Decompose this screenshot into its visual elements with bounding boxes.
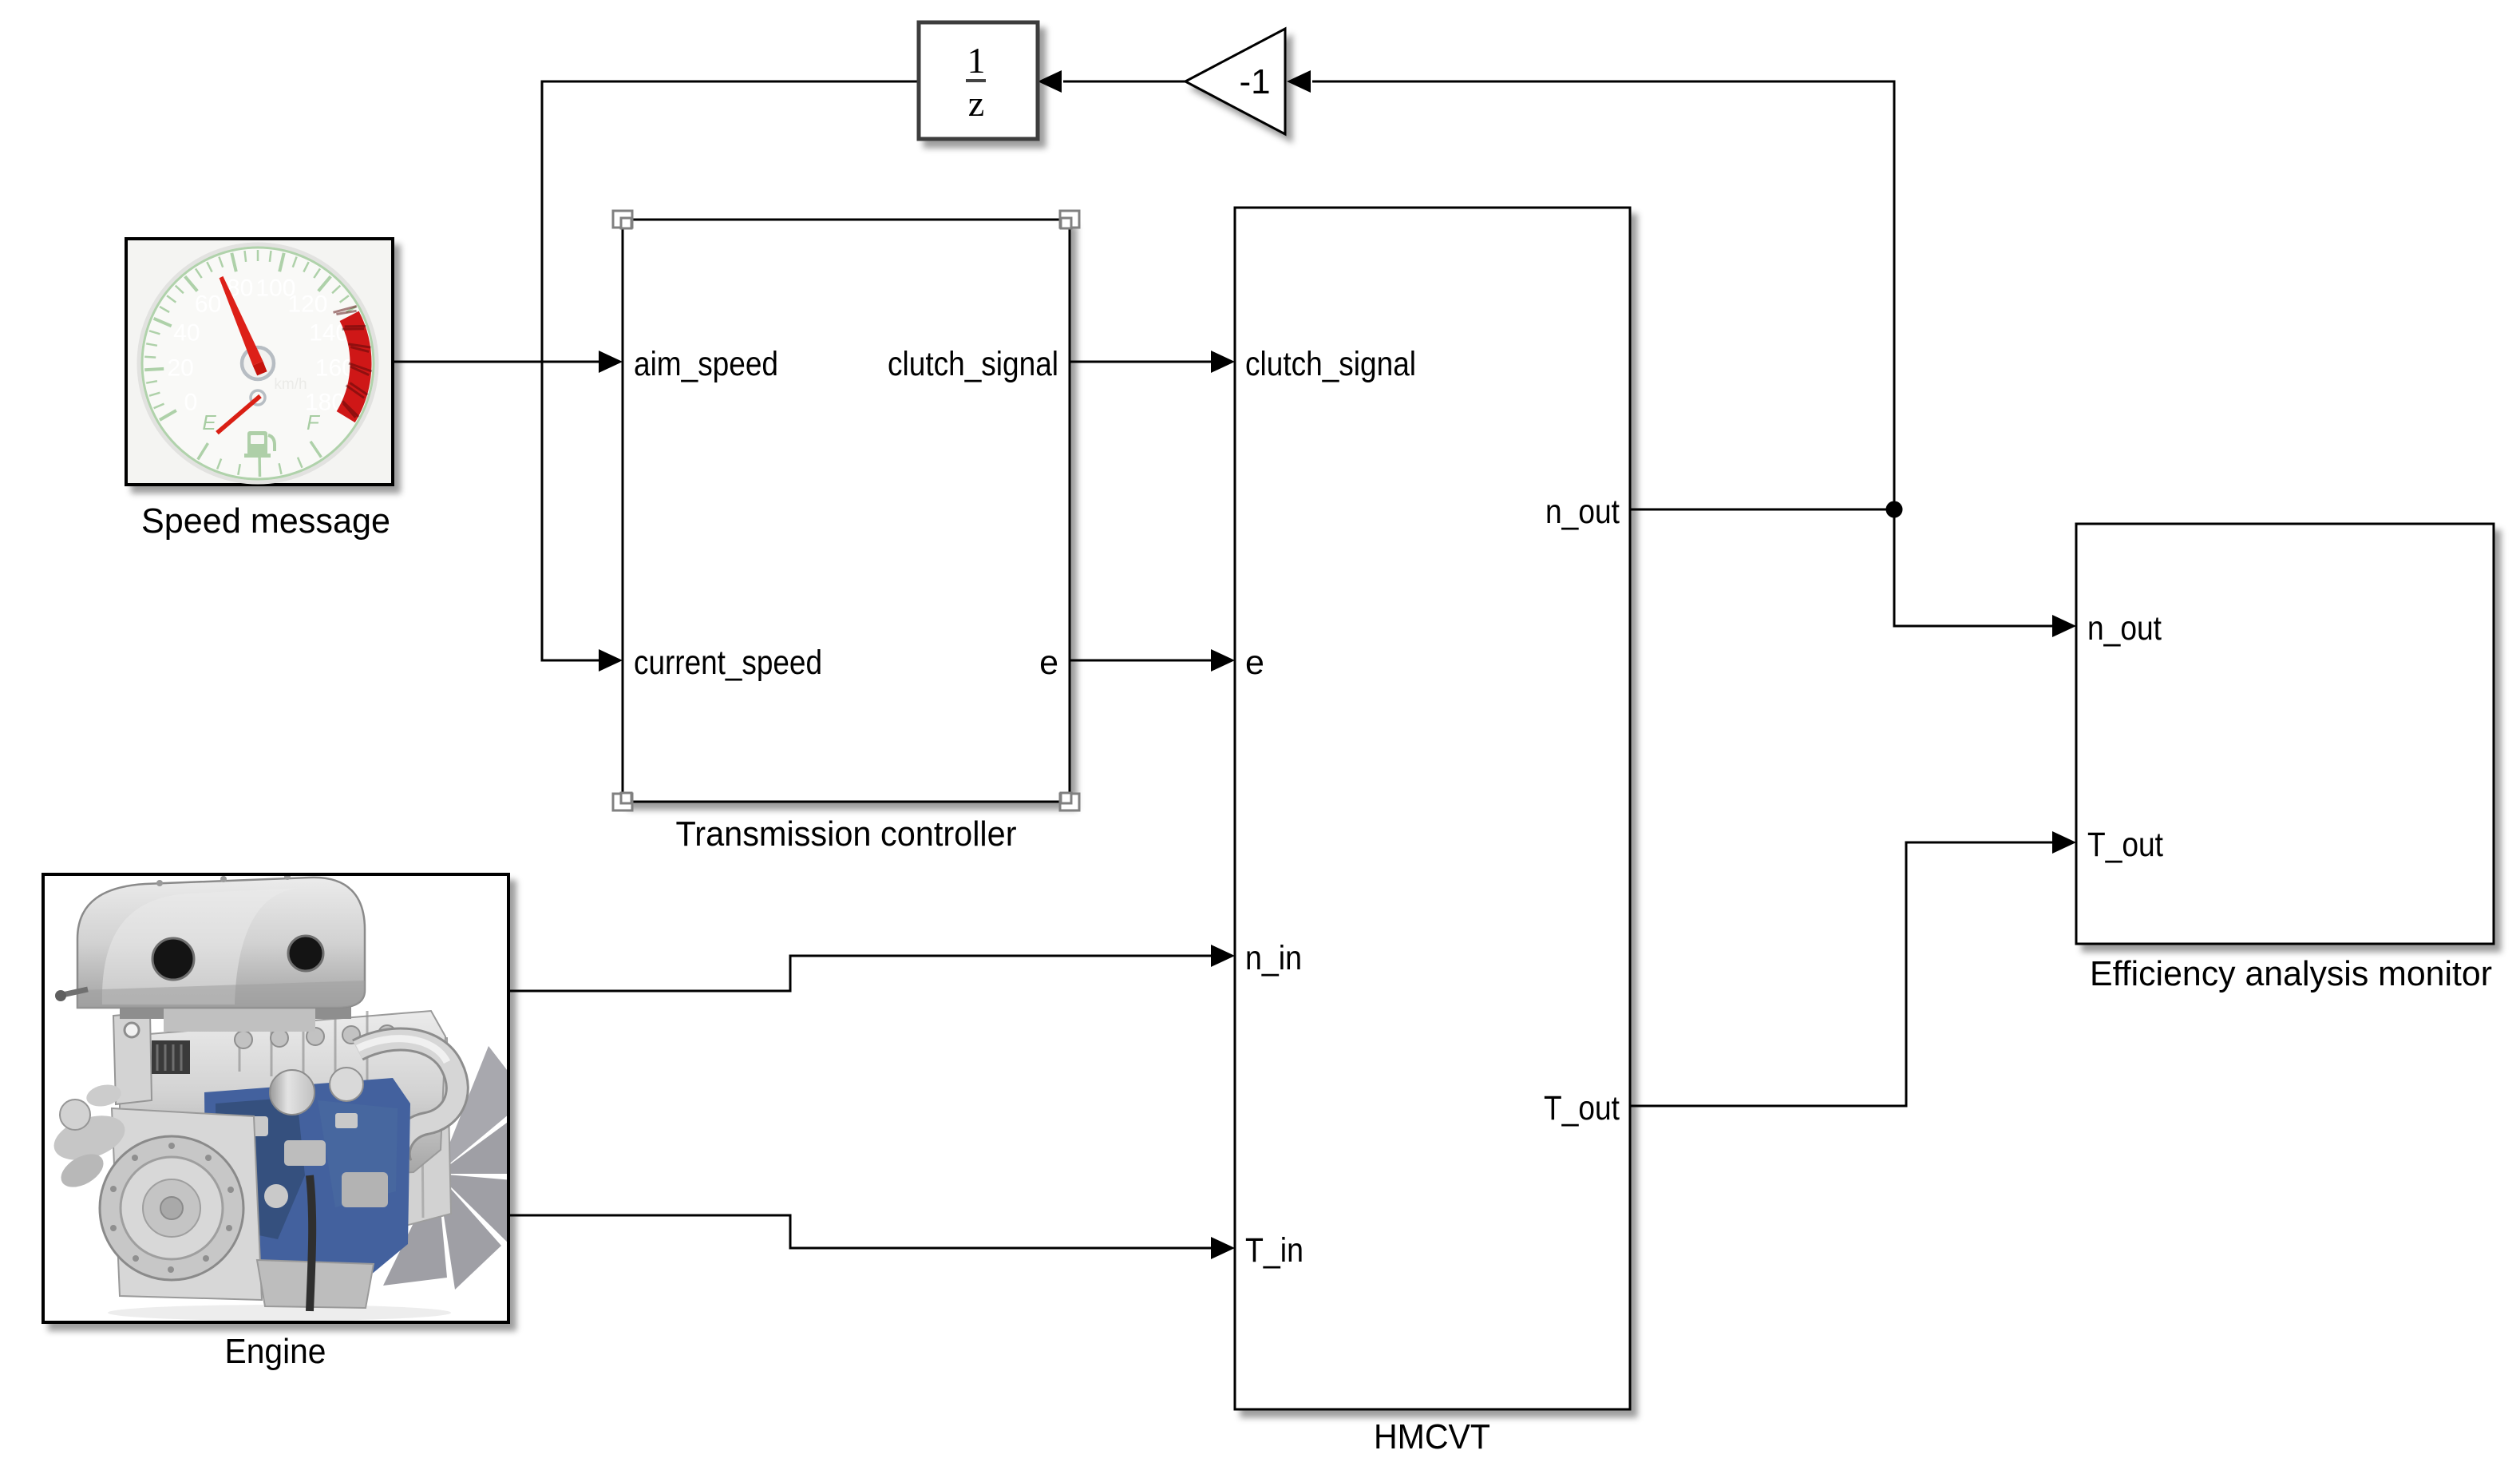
svg-text:Engine: Engine [225,1332,326,1371]
blue engine block [204,1078,410,1275]
speed message block [126,239,393,485]
svg-text:km/h: km/h [274,376,307,393]
arrowhead into EAM T_out [2052,831,2076,854]
corner badge top-right [1060,211,1079,228]
svg-text:60: 60 [195,291,221,318]
svg-text:40: 40 [173,320,200,347]
gauge red zone scribbles [334,307,372,418]
fuel needle [216,394,262,434]
corner badge bottom-left [613,793,632,810]
flywheel [100,1136,243,1280]
svg-text:n_out: n_out [2087,609,2162,648]
efficiency analysis monitor block [2076,524,2494,944]
svg-text:n_out: n_out [1545,493,1620,531]
valve cover ribs [239,1011,367,1086]
svg-text:HMCVT: HMCVT [1374,1417,1490,1456]
junction dot [1886,501,1903,518]
HMCVT block [1235,208,1630,1409]
svg-text:F: F [307,410,321,434]
wire: speed message output to aim_speed [393,361,600,363]
gauge dial numbers [168,275,355,416]
gauge red zone arc [346,316,361,417]
svg-text:e: e [1039,644,1058,682]
svg-text:0: 0 [184,390,198,416]
wire: HMCVT T_out to EAM T_out [1630,842,2054,1106]
turbo rounds [270,1070,315,1115]
fan blades [342,1046,533,1290]
fuel hub [251,390,265,405]
svg-text:T_in: T_in [1245,1231,1304,1270]
ground shadow [108,1305,451,1321]
wire: gain output to unit delay input [1063,81,1185,83]
canister top bolts [156,874,291,886]
svg-text:Speed message: Speed message [141,501,390,541]
wire: e TC to HMCVT [1070,660,1213,662]
unit delay block 1/z [919,22,1038,139]
arrowhead into aim_speed [599,351,623,373]
svg-text:clutch_signal: clutch_signal [1245,345,1416,383]
svg-text:aim_speed: aim_speed [634,345,778,383]
arrowhead into HMCVT clutch_signal [1211,351,1235,373]
arrowhead into current_speed [599,649,623,672]
oil pan [257,1260,374,1308]
canister intake hole right [288,936,323,971]
flywheel housing [112,1108,262,1300]
svg-text:20: 20 [168,355,194,382]
silver detail on blue [220,1113,388,1225]
corner badge top-left [613,211,632,228]
engine mid block silver [120,1011,445,1180]
air filter canister [77,878,365,1008]
wire: unit delay output feedback to current_speed [542,81,919,660]
svg-text:Transmission controller: Transmission controller [676,814,1017,854]
canister handle [62,989,88,995]
gauge outer ring [139,244,377,482]
gauge green rim [142,248,374,479]
gauge art [139,244,377,482]
svg-text:T_out: T_out [1544,1089,1620,1127]
corner badge bottom-right [1060,793,1079,810]
transmission controller block [623,220,1070,802]
svg-text:1: 1 [967,40,986,81]
wire: clutch_signal TC to HMCVT [1070,361,1213,363]
svg-text:current_speed: current_speed [634,644,822,682]
right machinery block [342,1030,451,1234]
svg-text:clutch_signal: clutch_signal [888,345,1058,383]
svg-text:E: E [202,410,216,434]
canister intake hole left [152,938,194,980]
arrowhead into gain input [1287,70,1311,93]
svg-text:z: z [968,83,984,124]
arrowhead into EAM n_out [2052,615,2076,637]
injector bumps row [235,1025,396,1048]
engine art [49,874,533,1321]
wire: HMCVT n_out to junction, feedback up to gain, and down to EAM n_out [1312,81,2054,626]
svg-text:T_out: T_out [2087,826,2163,864]
arrowhead into T_in [1211,1237,1235,1259]
arrowhead into HMCVT e [1211,649,1235,672]
left accessories [49,1108,131,1168]
unit delay label 1/z fraction [966,40,986,124]
dark hose [310,1175,312,1311]
svg-text:Efficiency analysis monitor: Efficiency analysis monitor [2090,954,2492,993]
svg-text:-1: -1 [1239,62,1270,101]
canister base [120,1000,351,1019]
wire: engine n output to HMCVT n_in [508,956,1213,991]
gauge needle [220,276,263,366]
arrowhead into n_in [1211,945,1235,967]
svg-text:120: 120 [287,291,327,318]
gauge hub [242,347,274,379]
gain block -1 [1185,29,1285,134]
gauge tick marks [144,250,371,477]
engine block [43,874,508,1322]
fuel pump icon [244,431,275,458]
dark grille [152,1040,190,1074]
svg-text:n_in: n_in [1245,939,1302,977]
left bracket [113,1012,152,1104]
svg-text:e: e [1245,644,1264,682]
exhaust pipe [358,1040,457,1164]
arrowhead into unit delay [1038,70,1062,93]
wire: engine T output to HMCVT T_in [508,1215,1213,1248]
